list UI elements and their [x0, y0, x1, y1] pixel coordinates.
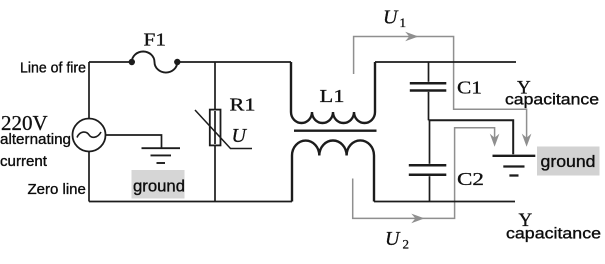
svg-text:L1: L1 [320, 86, 345, 106]
svg-text:capacitance: capacitance [506, 226, 601, 243]
svg-text:U: U [232, 125, 248, 147]
svg-text:U: U [383, 7, 399, 29]
svg-text:current: current [0, 154, 47, 170]
svg-text:R1: R1 [230, 95, 256, 115]
svg-text:ground: ground [133, 178, 185, 196]
svg-text:2: 2 [403, 237, 410, 252]
svg-text:ground: ground [541, 153, 596, 171]
svg-text:C2: C2 [457, 169, 484, 189]
svg-text:Zero line: Zero line [28, 181, 86, 198]
svg-text:Line of fire: Line of fire [20, 61, 86, 77]
svg-text:U: U [385, 228, 401, 250]
svg-text:alternating: alternating [0, 132, 71, 148]
svg-text:F1: F1 [144, 30, 167, 50]
svg-text:capacitance: capacitance [505, 92, 599, 109]
svg-text:C1: C1 [457, 78, 482, 98]
svg-text:1: 1 [400, 15, 407, 30]
